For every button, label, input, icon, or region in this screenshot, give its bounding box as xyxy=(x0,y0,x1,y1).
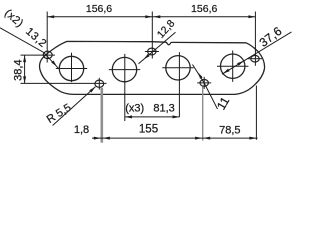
arrow 38,4 bottom xyxy=(23,76,26,83)
extension line middle (through top-middle small hole) xyxy=(151,12,153,59)
gasket plate outline xyxy=(40,41,265,94)
svg-text:155: 155 xyxy=(139,123,158,135)
small hole top-middle crosshair xyxy=(145,51,159,53)
arrow 37,6 lower xyxy=(222,69,229,75)
arrow 78,5 right xyxy=(249,137,256,140)
arrow top dim far-left xyxy=(47,15,54,18)
extension line bottom right xyxy=(255,86,257,140)
leader 37,6 diameter line xyxy=(222,32,292,74)
small hole top-right xyxy=(251,55,259,62)
arrow 13,2 xyxy=(51,60,58,67)
big hole 2 crosshair xyxy=(109,54,140,121)
extension line 38,4 top (to small hole crosshair) xyxy=(21,54,55,56)
small hole mid-right xyxy=(200,80,208,87)
arrow 11 xyxy=(197,72,203,79)
leader R 5,5 xyxy=(53,87,96,126)
big hole 4 xyxy=(221,54,245,78)
arrow 78,5 left xyxy=(203,137,210,140)
svg-text:156,6: 156,6 xyxy=(86,3,112,15)
small hole bottom-center xyxy=(95,80,104,87)
small hole bottom-center crosshair vertical xyxy=(98,78,100,90)
leader 11 xyxy=(193,65,218,110)
svg-text:78,5: 78,5 xyxy=(219,125,240,137)
leader 12,8 xyxy=(139,32,176,64)
leader 13,2 xyxy=(0,28,58,68)
big hole 1 xyxy=(59,56,83,80)
arrow top dim far-right xyxy=(248,15,255,18)
extension line left (through top-left small hole) xyxy=(46,12,48,63)
big hole 3 crosshair xyxy=(162,52,193,117)
small hole top-middle xyxy=(148,48,156,55)
small hole mid-right crosshair xyxy=(197,77,211,89)
arrow 37,6 upper xyxy=(237,60,244,66)
svg-text:(x3) 81,3: (x3) 81,3 xyxy=(125,103,175,115)
big hole 4 crosshair xyxy=(217,51,248,82)
arrow 12,8 xyxy=(143,54,150,61)
top dimension line 156,6 + 156,6 xyxy=(47,16,255,18)
arrow 81,3 right xyxy=(173,115,180,118)
arrow top dim mid-right xyxy=(153,15,160,18)
extension line right (through top-right small hole) xyxy=(254,12,256,66)
bottom dimension line 1,8 / 155 / 78,5 xyxy=(92,137,258,139)
svg-text:156,6: 156,6 xyxy=(191,3,217,15)
big hole 2 xyxy=(112,57,136,81)
dimension line (x3) 81,3 xyxy=(125,116,180,118)
gray extension pair 1,8 from bottom hole xyxy=(101,88,104,143)
arrow R 5,5 xyxy=(89,86,96,93)
dimension line 38,4 xyxy=(24,55,26,83)
gray extension from mid-right hole xyxy=(202,87,204,141)
arrow 81,3 left xyxy=(125,115,132,118)
svg-text:1,8: 1,8 xyxy=(74,124,89,136)
small hole top-right crosshair xyxy=(248,58,262,60)
arrow 1,8 left outside xyxy=(94,137,101,140)
big hole 1 crosshair xyxy=(56,53,87,82)
arrow 155 left outside xyxy=(103,137,110,140)
svg-text:38,4: 38,4 xyxy=(12,59,24,80)
big hole 3 xyxy=(166,56,190,80)
small hole top-left xyxy=(43,51,52,58)
arrow top dim mid-left xyxy=(145,15,152,18)
arrow 38,4 top xyxy=(23,55,26,62)
extension line 38,4 bottom (to bottom-center hole) xyxy=(21,82,107,84)
arrow 155 right xyxy=(195,137,202,140)
